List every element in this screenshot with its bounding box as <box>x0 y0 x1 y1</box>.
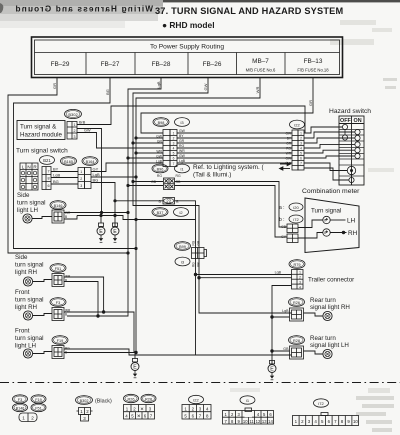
label: Rear turn signal light RH <box>310 297 350 311</box>
indicator lamp RH <box>323 229 330 236</box>
scan artifact: dark top edge strip <box>163 0 400 2</box>
svg-text:light RH: light RH <box>15 304 37 311</box>
B98 left wire labels <box>156 135 163 164</box>
svg-text:turn signal: turn signal <box>15 297 44 304</box>
svg-text:✕: ✕ <box>137 414 141 419</box>
scan artifact: mirrored bleed-through header text <box>14 5 153 14</box>
wire BG from B164 to ground bus <box>91 183 115 228</box>
wire FB-26 vertical V2 rear feed <box>133 78 292 314</box>
wire trailer pin4 from ground bus <box>272 286 292 365</box>
svg-text:B164: B164 <box>86 160 95 164</box>
svg-text:7: 7 <box>173 162 175 166</box>
svg-text:i20: i20 <box>293 205 299 210</box>
connector R28 oval <box>289 336 305 345</box>
combination meter trapezoid <box>305 198 359 253</box>
node ground E1 tap <box>99 214 102 217</box>
connector B302 pin block <box>67 122 77 140</box>
svg-text:Front: Front <box>15 289 30 296</box>
connector B98-i3 inline block <box>163 130 177 167</box>
meter connector labels <box>281 225 287 239</box>
svg-text:F3: F3 <box>56 301 60 305</box>
wire B96 feed upper <box>133 181 163 183</box>
wire side LH ground run <box>77 216 196 220</box>
connector B164 oval <box>82 157 98 166</box>
svg-text:37. TURN SIGNAL AND HAZARD SY: 37. TURN SIGNAL AND HAZARD SYSTEM <box>155 6 343 16</box>
connector B21 pin block <box>42 167 51 190</box>
wire lamp to connector <box>32 217 52 219</box>
svg-text:B37: B37 <box>157 211 164 215</box>
svg-text:1: 1 <box>74 123 76 127</box>
svg-text:GR: GR <box>52 83 57 89</box>
svg-text:3: 3 <box>299 280 301 284</box>
connector front RH block <box>52 308 64 321</box>
hazard switch table <box>339 116 364 185</box>
svg-text:F51: F51 <box>35 406 42 410</box>
svg-text:GR: GR <box>157 140 163 144</box>
bottom row: 2-pin connector face <box>19 413 37 422</box>
svg-text:22: 22 <box>166 199 171 204</box>
svg-text:4: 4 <box>299 285 301 289</box>
svg-text:BG: BG <box>93 178 99 183</box>
power supply routing box <box>32 37 343 78</box>
bus right wire labels <box>179 129 186 163</box>
svg-text:ON: ON <box>354 118 362 124</box>
wire i1 to meter b <box>175 186 288 238</box>
side LH wire labels <box>65 211 71 219</box>
label: Side turn signal light LH <box>17 192 46 214</box>
wire R28 ground pin <box>272 350 290 352</box>
fuse FB-13 <box>297 58 329 73</box>
svg-text:11: 11 <box>249 419 254 424</box>
svg-text:RG: RG <box>179 144 184 148</box>
scan artifact: grey band top-left <box>0 0 163 28</box>
svg-text:GB: GB <box>197 241 201 246</box>
svg-text:Trailer connector: Trailer connector <box>308 277 354 284</box>
ground E front <box>131 359 139 378</box>
connector F3 oval <box>50 298 66 307</box>
bottom row: connector F19 oval <box>31 395 46 403</box>
B99 rotated labels <box>192 240 201 267</box>
svg-text:BG: BG <box>105 89 110 95</box>
svg-text:LgB: LgB <box>93 172 100 177</box>
wire meter b to RH lamp <box>298 233 323 239</box>
svg-text:B146: B146 <box>16 406 24 410</box>
connector B96 oval <box>152 164 168 173</box>
svg-text:RG: RG <box>192 240 196 245</box>
node ground E2 tap <box>113 214 116 217</box>
svg-text:GB: GB <box>281 225 287 229</box>
page separator dash-dot line <box>0 382 400 384</box>
svg-text:2: 2 <box>80 177 82 181</box>
connector side RH block <box>52 274 64 287</box>
wire front LH signal to rear LH <box>64 349 196 355</box>
svg-text:B146: B146 <box>54 204 63 208</box>
wire LH lamp out <box>330 219 345 221</box>
svg-text:B: B <box>65 313 67 317</box>
inline connector 22 <box>163 198 175 205</box>
node loop1 to V1 <box>126 251 129 254</box>
svg-text:N: N <box>27 164 30 169</box>
svg-text:RG: RG <box>192 262 196 267</box>
svg-text:2: 2 <box>74 129 76 133</box>
meter connector a block <box>287 224 298 233</box>
connector R79 oval <box>289 260 305 269</box>
side RH wire labels <box>65 275 71 283</box>
indicator lamp LH <box>323 216 330 223</box>
connector B96-i1 block <box>164 178 175 190</box>
wire RH lamp out <box>330 232 346 234</box>
bottom row: connector F3 oval <box>13 395 28 403</box>
svg-text:LH: LH <box>347 218 356 225</box>
connector B37 oval <box>152 208 168 217</box>
svg-text:FB–27: FB–27 <box>101 61 120 68</box>
svg-text:LgB: LgB <box>179 159 186 163</box>
svg-text:LgB: LgB <box>275 270 282 274</box>
svg-text:R26: R26 <box>128 397 135 401</box>
svg-text:Hazard switch: Hazard switch <box>329 108 371 115</box>
bottom row: connector R28 oval <box>141 394 156 402</box>
svg-text:F51: F51 <box>55 267 62 271</box>
svg-text:GW: GW <box>286 132 292 136</box>
svg-text:GW: GW <box>179 154 186 158</box>
wire FB-28 vertical V1 <box>67 78 161 317</box>
wire side RH signal <box>64 277 104 312</box>
svg-text:1: 1 <box>22 416 25 421</box>
stair wires i22 to hazard <box>304 127 355 180</box>
connector B21 oval <box>40 156 55 165</box>
wire 22 left to ground bus <box>115 200 163 202</box>
wire lamp to connector <box>33 280 53 282</box>
svg-text:1: 1 <box>173 132 175 136</box>
hazard ON contacts <box>355 129 360 158</box>
node V2-B96 feed <box>131 180 134 183</box>
label a : i20 <box>279 203 303 211</box>
svg-text:Turn signal &: Turn signal & <box>20 124 57 131</box>
svg-text:F/B FUSE No.18: F/B FUSE No.18 <box>297 68 329 73</box>
turn signal and hazard module box <box>17 121 65 140</box>
svg-text:2: 2 <box>299 276 301 280</box>
svg-text:Turn signal switch: Turn signal switch <box>16 148 68 155</box>
svg-text:14: 14 <box>268 419 273 424</box>
svg-text:RG: RG <box>286 147 291 151</box>
wire FB-27 left loop <box>14 78 137 249</box>
bottom row: connector B302 oval <box>76 396 93 405</box>
label: Side turn signal light RH <box>15 254 44 276</box>
connector B99-i3 block <box>192 248 207 259</box>
connector B302 oval <box>65 109 82 118</box>
bottom row: i72 connector face <box>293 413 359 426</box>
wire front RH signal <box>64 312 134 352</box>
svg-text:B: B <box>65 215 67 219</box>
svg-text:GW: GW <box>156 155 163 159</box>
svg-text:B98: B98 <box>158 121 165 125</box>
svg-text:5: 5 <box>173 152 175 156</box>
svg-text:GW: GW <box>203 83 208 90</box>
wire module w2 step-down to side LH <box>77 129 102 213</box>
node side RH to front RH ground <box>96 314 99 317</box>
bottom row: connector R26 oval <box>124 394 139 402</box>
svg-text:i22: i22 <box>193 397 199 402</box>
ground E right <box>111 223 119 242</box>
svg-text:3: 3 <box>80 184 82 188</box>
svg-text:BrB: BrB <box>79 121 86 125</box>
wire side LH ground <box>64 216 77 220</box>
svg-text:GW: GW <box>84 129 91 133</box>
connector F51 oval <box>50 264 66 273</box>
hazard table row lines <box>339 130 364 177</box>
svg-text:6: 6 <box>47 184 49 188</box>
svg-text:FB–28: FB–28 <box>152 61 171 68</box>
wire side RH ground <box>64 282 98 317</box>
svg-text:turn signal: turn signal <box>15 262 44 269</box>
i22 left labels <box>285 132 292 166</box>
svg-text:4: 4 <box>300 147 302 151</box>
svg-text:RG: RG <box>176 174 181 178</box>
i22 pin numbers <box>300 132 302 166</box>
svg-text:GB: GB <box>197 262 201 267</box>
ref arrows <box>280 162 291 170</box>
bottom row: connector i22 oval <box>189 395 204 403</box>
svg-text:4: 4 <box>173 147 175 151</box>
B98 pin numbers <box>173 132 175 166</box>
node V3 ground run <box>134 218 137 221</box>
label: Rear turn signal light LH <box>310 335 349 349</box>
svg-text:1: 1 <box>300 132 302 136</box>
svg-text:B21: B21 <box>43 158 51 163</box>
connector i2 oval <box>174 208 189 217</box>
svg-text:light LH: light LH <box>15 343 36 350</box>
svg-text:i72: i72 <box>318 401 324 406</box>
wire front LH ground <box>64 352 136 354</box>
svg-text:GW: GW <box>179 129 186 133</box>
svg-text:3: 3 <box>300 142 302 146</box>
fuse MB-7 <box>246 58 276 73</box>
wire module w1 over bus to i22 <box>77 106 305 133</box>
meter connector b block <box>287 234 298 243</box>
svg-text:FB–29: FB–29 <box>51 61 70 68</box>
bottom row: connector B146 oval <box>13 403 28 411</box>
svg-text:3: 3 <box>173 142 175 146</box>
svg-text:M/B FUSE No.6: M/B FUSE No.6 <box>246 68 276 73</box>
bus wires B98 to i22 <box>177 133 292 163</box>
wire lamp to connector <box>33 314 53 316</box>
lamp side LH <box>23 214 32 223</box>
svg-text:WR: WR <box>255 87 260 94</box>
svg-text:signal light RH: signal light RH <box>310 304 350 311</box>
svg-text:13: 13 <box>262 419 267 424</box>
svg-text:light LH: light LH <box>17 207 38 214</box>
wire GY from B164 up to bus <box>91 163 163 172</box>
svg-text:GR: GR <box>308 100 313 106</box>
wire LgB switch to B165 <box>51 177 78 179</box>
svg-text:R26: R26 <box>293 301 300 305</box>
node V3-B164 join <box>134 175 137 178</box>
svg-text:✕: ✕ <box>140 406 144 411</box>
connector i1 oval <box>175 164 190 173</box>
scan artifact: faint right-edge bleed marks <box>230 78 397 432</box>
node module w2 to side LH <box>100 211 103 214</box>
node V3-B98 branch row2 <box>134 136 137 139</box>
node R26 ground tap <box>270 315 273 318</box>
node side LH signal to V1 <box>126 211 129 214</box>
svg-text:B99: B99 <box>179 245 186 249</box>
node loop2 to V3 <box>134 247 137 250</box>
label: Front turn signal light LH <box>15 328 44 350</box>
svg-text:6: 6 <box>300 157 302 161</box>
svg-text:F3: F3 <box>18 398 22 402</box>
svg-text:BG: BG <box>53 179 59 184</box>
lamp front LH <box>23 349 32 358</box>
svg-text:OFF: OFF <box>340 118 351 124</box>
lamp front RH <box>23 311 32 320</box>
svg-text:LgB: LgB <box>156 81 161 88</box>
ground stem front <box>134 353 136 359</box>
svg-text:5: 5 <box>300 152 302 156</box>
svg-text:Side: Side <box>17 192 30 199</box>
svg-text:3: 3 <box>74 135 76 139</box>
svg-text:WR: WR <box>286 152 292 156</box>
front LH wire labels <box>65 347 70 355</box>
wire FB-29 left loop <box>8 78 128 254</box>
turn signal switch contact grid <box>20 163 38 190</box>
wire MB-7 vertical V3 <box>136 78 260 353</box>
label: Ref. to Lighting system <box>193 164 265 179</box>
svg-text:FB–13: FB–13 <box>304 58 323 65</box>
svg-text:L: L <box>22 164 25 169</box>
wire lamp to connector <box>33 352 53 354</box>
node side RH to front RH signal <box>102 310 105 313</box>
svg-text:GW: GW <box>286 157 292 161</box>
wire branch V2 to B98 <box>133 142 163 144</box>
connector F19 oval <box>52 336 68 345</box>
svg-text:Turn signal: Turn signal <box>311 208 341 215</box>
svg-text:Rear turn: Rear turn <box>310 297 336 304</box>
svg-text:GY: GY <box>93 167 99 172</box>
node trailer pin2 tap <box>194 273 197 276</box>
wire trailer pin3 <box>199 277 292 279</box>
scan artifact: dark corner blob <box>0 3 3 13</box>
wire i1 to meter a <box>175 182 288 228</box>
connector R26 oval <box>289 298 305 307</box>
bottom row: i22 connector face <box>182 405 211 420</box>
svg-text:B302: B302 <box>68 112 78 117</box>
svg-text:RG: RG <box>157 174 162 178</box>
svg-text:LgB: LgB <box>53 172 60 177</box>
svg-text:2: 2 <box>300 137 302 141</box>
connector B146 oval <box>50 201 66 210</box>
connector i3b oval <box>175 257 190 266</box>
front RH wire labels <box>65 309 71 317</box>
svg-text:GR: GR <box>179 139 185 143</box>
wire branch V3 to B98 row2 <box>136 137 163 139</box>
node left ground join <box>134 351 137 354</box>
lamp side RH <box>23 277 32 286</box>
svg-text:Combination meter: Combination meter <box>302 188 360 195</box>
svg-text:RH: RH <box>348 230 358 237</box>
svg-text:light RH: light RH <box>15 269 37 276</box>
svg-text:● RHD model: ● RHD model <box>162 20 215 30</box>
svg-text:LgB: LgB <box>282 309 289 313</box>
svg-text:Front: Front <box>15 328 30 335</box>
label: Turn signal & Hazard module <box>20 124 63 139</box>
svg-text:B96: B96 <box>157 167 164 171</box>
svg-text:a :: a : <box>279 205 285 211</box>
connector B98 oval <box>153 118 169 127</box>
svg-text:GW: GW <box>156 135 163 139</box>
connector R79 block <box>292 270 304 290</box>
svg-text:WR: WR <box>179 149 185 153</box>
wire module w3 step to B98 <box>77 133 163 149</box>
connector front LH block <box>52 346 64 359</box>
scan artifact: faint top-right bleed <box>330 20 392 45</box>
svg-text:R28: R28 <box>145 397 152 401</box>
bottom row: connector F51 oval <box>31 403 46 411</box>
svg-text:Rear turn: Rear turn <box>310 335 336 342</box>
svg-text:Side: Side <box>15 254 28 261</box>
lamp rear LH <box>304 349 333 358</box>
svg-text:6: 6 <box>173 157 175 161</box>
svg-text:F19: F19 <box>35 398 42 402</box>
wire 22 right to rear chain <box>175 201 292 355</box>
ground E left <box>97 223 105 242</box>
svg-text:BY: BY <box>179 134 184 138</box>
wire branch V3 to B98 <box>136 152 163 154</box>
wire B96 feed lower <box>128 185 163 187</box>
svg-text:10: 10 <box>243 419 248 424</box>
svg-text:MB–7: MB–7 <box>252 58 269 65</box>
bottom row: R26/R28 connector face <box>124 405 155 420</box>
label b : i72 <box>279 215 303 223</box>
hazard OFF contacts <box>342 124 347 140</box>
bottom row: connector i72 oval <box>314 399 329 407</box>
connector R28 block <box>290 346 304 359</box>
node V3-B98 branch row5 <box>134 151 137 154</box>
connector R26 block <box>290 308 304 321</box>
svg-text:Hazard module: Hazard module <box>20 132 63 139</box>
svg-text:Wiring Harness and Ground: Wiring Harness and Ground <box>14 5 153 14</box>
svg-text:GY: GY <box>281 235 287 239</box>
connector B99 oval <box>175 242 191 251</box>
svg-text:7: 7 <box>300 162 302 166</box>
svg-text:LgB: LgB <box>285 162 291 166</box>
svg-text:GB: GB <box>176 180 182 184</box>
svg-text:12: 12 <box>256 419 261 424</box>
wire branch V1 to B98 <box>128 157 163 159</box>
label: Front turn signal light RH <box>15 289 44 311</box>
fuse cell dividers <box>35 53 340 75</box>
svg-text:B165: B165 <box>64 160 73 164</box>
B96 wire labels <box>151 174 181 184</box>
svg-text:2: 2 <box>173 137 175 141</box>
svg-text:1: 1 <box>80 170 82 174</box>
svg-text:LgB: LgB <box>156 160 163 164</box>
svg-text:FB–26: FB–26 <box>203 61 222 68</box>
bottom row: connector i1 oval <box>240 396 255 404</box>
wire R26 ground pin <box>272 316 290 318</box>
svg-text:GB: GB <box>151 180 157 184</box>
connector side LH block <box>52 210 64 223</box>
node V2-B98 branch <box>131 141 134 144</box>
svg-text:i22: i22 <box>294 122 300 127</box>
svg-text:(Tail & Illumi.): (Tail & Illumi.) <box>193 172 231 179</box>
wire trailer pin2 <box>196 274 292 276</box>
node V1-B96 feed <box>126 184 129 187</box>
ground E rear <box>268 361 276 380</box>
svg-text:1: 1 <box>299 271 301 275</box>
node V1-B98 branch <box>126 156 129 159</box>
connector B165-B164 inline block <box>78 168 91 189</box>
svg-text:i72: i72 <box>293 217 299 222</box>
